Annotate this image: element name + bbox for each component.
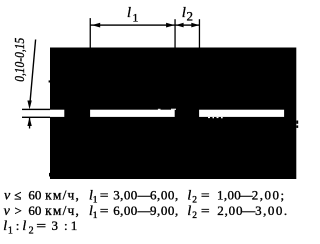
svg-text::: : (16, 218, 20, 233)
arrowhead pointing up at stripe bottom (27, 117, 31, 126)
svg-text:2: 2 (29, 225, 34, 236)
svg-text:=: = (100, 204, 109, 218)
svg-text:1: 1 (93, 196, 98, 206)
note line 2 (4, 203, 289, 221)
wire: dash 3 of marking line (199, 110, 284, 117)
extension line between l1 and l2 (174, 19, 175, 47)
svg-text:2,00: 2,00 (217, 203, 243, 218)
svg-text:1: 1 (71, 218, 78, 233)
speck artifacts above dash 2 (158, 109, 161, 110)
svg-text:v: v (4, 189, 11, 204)
label l2 (182, 5, 193, 24)
arrowhead left of l2 (176, 23, 184, 28)
svg-text:1,00: 1,00 (217, 188, 241, 203)
svg-text:60: 60 (28, 203, 41, 218)
svg-text:2: 2 (187, 8, 194, 23)
note line 1 (4, 188, 286, 206)
svg-text:0,10-0,15: 0,10-0,15 (12, 37, 27, 82)
arrowhead right of l2 (191, 23, 199, 28)
svg-text:60: 60 (28, 188, 41, 203)
svg-text:2: 2 (192, 196, 197, 206)
svg-text:l: l (127, 5, 131, 21)
speck artifacts below dash 3 (208, 117, 210, 118)
svg-text:v: v (4, 204, 11, 219)
svg-text:6,00,: 6,00, (150, 188, 179, 203)
svg-text:=: = (36, 219, 46, 233)
extension line at end of l2 (199, 19, 200, 47)
arrowhead right of l1 (166, 23, 175, 28)
svg-text:l: l (22, 219, 26, 234)
nub artifact on left edge of road (49, 80, 51, 82)
svg-text:l: l (187, 189, 191, 204)
svg-text:9,00,: 9,00, (150, 203, 179, 218)
tail under lower arrowhead (29, 118, 30, 129)
label l1 (127, 5, 138, 25)
note line 3 (3, 218, 77, 236)
wire: dash 2 of marking line (length l1) (90, 110, 175, 117)
svg-text:l: l (182, 5, 186, 21)
svg-text:l: l (187, 204, 191, 219)
arrowhead left of l1 (92, 23, 101, 28)
svg-text:≤: ≤ (14, 188, 21, 203)
dimension line for l1 and l2 (90, 24, 200, 25)
svg-text:—: — (241, 203, 256, 218)
svg-text:3,00: 3,00 (113, 188, 138, 203)
svg-text:=: = (201, 204, 210, 218)
svg-text:=: = (201, 189, 210, 203)
svg-text:=: = (100, 189, 109, 203)
arrowhead pointing down at stripe top (27, 101, 31, 110)
svg-text:1: 1 (132, 10, 138, 24)
svg-text:3: 3 (52, 218, 59, 233)
svg-text:l: l (3, 219, 7, 234)
svg-text:1: 1 (8, 225, 13, 236)
svg-text:>: > (15, 203, 22, 218)
svg-text:1: 1 (93, 211, 98, 221)
svg-text:3,00.: 3,00. (255, 203, 289, 218)
svg-text:2: 2 (192, 211, 197, 221)
svg-text:км/ч,: км/ч, (45, 203, 80, 218)
svg-text::: : (64, 218, 68, 233)
upper extension line of stripe width (22, 109, 50, 110)
leader line to width label (30, 40, 36, 107)
wire: dash 1 of marking line 1.5 (white, cut at left edge) (50, 110, 64, 117)
road surface (black rectangle) (50, 48, 296, 180)
svg-text:6,00: 6,00 (113, 203, 138, 218)
nub artifact on right edge of road (296, 121, 298, 124)
svg-text:2,00;: 2,00; (252, 188, 286, 203)
extension line at start of l1 (90, 18, 91, 47)
lower extension line of stripe width (22, 117, 50, 118)
svg-text:км/ч,: км/ч, (45, 188, 80, 203)
